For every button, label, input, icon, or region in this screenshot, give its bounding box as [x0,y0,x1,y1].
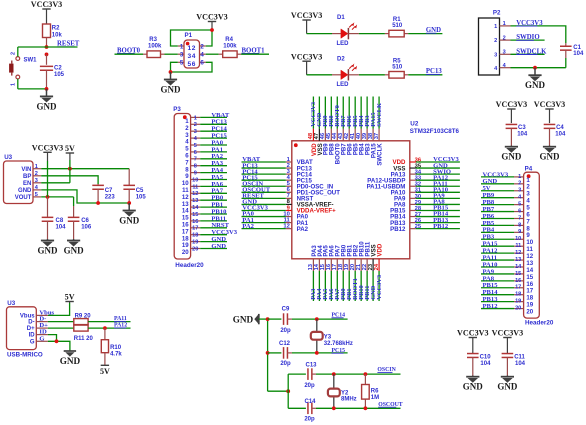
junction dot [45,53,49,57]
svg-text:6: 6 [194,150,197,156]
junction dot VCC3V3-VOUT [46,195,50,199]
wire U2 bottom PB10 [360,271,362,301]
wire SW1 top [17,47,19,57]
wire C13 branch [287,374,289,408]
svg-text:U2: U2 [410,120,419,127]
svg-text:3: 3 [503,50,506,56]
svg-text:10: 10 [515,236,521,242]
svg-text:5V: 5V [65,144,75,153]
pin USB ID [36,334,48,336]
junction dot GND boot [169,70,173,74]
svg-text:20p: 20p [304,383,315,389]
pin P4-9 net PB4 [514,231,524,233]
wire OSCOUT [316,407,401,409]
svg-text:GND: GND [161,85,182,95]
pin U2-40 PB4 [360,129,362,141]
svg-text:18: 18 [192,233,198,239]
junction dot P2 gnd [533,66,537,70]
pin P4-6 net PB7 [514,211,524,213]
microcontroller U2 STM32F103C8T6 [292,141,410,259]
svg-text:P1: P1 [185,32,193,39]
pin U2-11 PA1 [286,222,292,224]
wire U2 bottom PB0 [342,271,344,301]
svg-text:SWCLK: SWCLK [376,143,383,166]
svg-text:VCC3V3: VCC3V3 [31,0,62,9]
wire gnd to rail [259,318,268,320]
svg-text:6: 6 [518,208,521,214]
svg-text:PB12: PB12 [433,223,449,230]
svg-text:PB12: PB12 [483,303,499,310]
node RESET junction [45,45,49,49]
wire D- to R9 [48,321,74,323]
wire VCC loop top [171,30,213,46]
wire U2 left PC15 [242,179,286,181]
wire C1 down [565,58,567,68]
wire VIN row [41,168,129,170]
pin USB D- [36,321,48,323]
pin P1-2 [200,45,206,47]
ground GND (boot) [170,72,172,80]
svg-text:P2: P2 [493,10,501,17]
svg-text:5: 5 [35,192,38,198]
wire D2 to R5 [359,74,385,76]
wire U2 bottom PA5 [324,271,326,301]
pin P4-1 net VCC3V3 [514,176,524,178]
svg-text:104: 104 [480,361,491,367]
svg-text:USB-MRICO: USB-MRICO [7,352,43,359]
junction dot 5V-VIN [68,167,72,171]
pin U2-34 PA13 [410,173,416,175]
svg-text:1: 1 [10,83,16,86]
svg-text:16: 16 [515,278,521,284]
svg-text:1M: 1M [371,395,379,401]
ground GND (C8) [47,239,49,241]
svg-text:1: 1 [494,24,497,30]
ground GND (C5) [128,203,130,211]
svg-text:GND: GND [119,216,140,226]
wire U2 top PB8 [330,97,332,129]
wire SWDIO [511,39,545,41]
wire U2 right PB12 [416,228,460,230]
LED D1 [332,15,359,47]
svg-text:1: 1 [518,174,521,180]
wire Vbus to 5V [48,303,70,315]
junction dot ID-G [55,339,59,343]
pin U2-9 VDDA-VREF+ [286,209,292,211]
svg-text:14: 14 [515,264,522,270]
svg-text:C5: C5 [136,188,144,194]
svg-text:C14: C14 [304,399,316,405]
svg-text:C3: C3 [518,125,526,131]
pin P3-5 net PA0 [191,144,201,146]
pin P4-12 net PA12 [514,252,524,254]
svg-text:19: 19 [192,240,198,246]
capacitor C9 [283,313,285,325]
pin U2-5 PD0-OSC_IN [286,185,292,187]
svg-text:D1: D1 [337,15,345,21]
pin P4-8 net PB5 [514,224,524,226]
svg-text:1: 1 [180,43,184,50]
header P1 [184,40,200,68]
pin U2-22 PB11 [366,259,368,271]
wire BOOT0 [115,53,144,55]
svg-text:8: 8 [518,222,521,228]
pin U2-45 PB8 [330,129,332,141]
pin U2-18 PB0 [342,259,344,271]
svg-text:GND: GND [525,80,546,90]
wire G row [48,341,70,351]
pin P2-4 [500,67,511,69]
wire bottom to GND [18,88,47,90]
pin P3-16 net PB11 [191,220,201,222]
svg-text:C6: C6 [81,218,89,224]
pin P1-3 [178,53,184,55]
wire U2 right GND [416,167,460,169]
pin U2-43 PB7 [342,129,344,141]
pin U2-7 NRST [286,197,292,199]
junction dot bottom [45,87,49,91]
pin P4-11 net PA15 [514,245,524,247]
pin P4-14 net PA10 [514,266,524,268]
pin P3-11 net PA6 [191,185,201,187]
svg-text:2: 2 [503,35,506,41]
svg-text:PB12: PB12 [390,226,406,233]
pin P2-3 [500,53,511,55]
svg-text:GND: GND [540,152,561,162]
svg-text:7: 7 [518,215,521,221]
pin U2-35 VSS [410,167,416,169]
junction dot D+ [103,326,107,330]
junction dot R6 bottom [364,406,368,410]
svg-text:GND: GND [211,243,226,250]
svg-text:104: 104 [573,51,584,57]
pin U3-3 EN [33,182,41,184]
svg-text:Y3: Y3 [324,334,332,340]
svg-text:14: 14 [192,205,199,211]
pin USB Vbus [36,314,48,316]
svg-text:VCC3V3: VCC3V3 [196,13,227,22]
pin U2-17 PA7 [336,259,338,271]
svg-text:R9 20: R9 20 [75,313,92,319]
wire U2 left OSCOUT [242,191,286,193]
svg-text:15: 15 [515,271,521,277]
svg-text:VCC3V3: VCC3V3 [291,11,322,20]
pin P3-15 net PB10 [191,213,201,215]
pin U2-38 PA15 [372,129,374,141]
pin C2 bottom [46,70,48,89]
svg-text:GND: GND [38,246,59,256]
svg-text:106: 106 [81,224,92,230]
svg-text:32.768kHz: 32.768kHz [324,341,353,347]
svg-text:16: 16 [192,219,198,225]
connector P2 [479,18,500,75]
resistor R3 [143,53,147,55]
wire U2 left OSCIN [242,185,286,187]
svg-text:GND: GND [60,356,81,366]
svg-text:510: 510 [392,23,403,29]
svg-text:VDD: VDD [376,243,383,256]
wire SWDCLK [511,53,545,55]
svg-text:D-: D- [28,320,34,326]
pin U2-24 VDD [378,259,380,271]
switch SW1 [9,52,37,86]
pin U3-4 GND [33,189,41,191]
svg-text:C2: C2 [54,65,62,71]
power port VCC3V3 (reset pull-up) [46,9,48,24]
wire U2 bottom PB11 [366,271,368,301]
wire U2 left PA0 [242,216,286,218]
wire U2 left PC14 [242,173,286,175]
wire D+ to R11 [48,327,74,329]
capacitor C6 [73,197,75,206]
svg-text:3: 3 [180,52,184,59]
svg-text:12: 12 [188,45,197,52]
wire GND row [41,190,129,203]
header P4 [524,172,540,318]
svg-text:20: 20 [515,305,521,311]
pin P3-7 net PA2 [191,158,201,160]
svg-text:Header20: Header20 [175,262,204,269]
svg-text:R10: R10 [110,345,122,351]
wire U2 right PB15 [416,209,460,211]
pin U2-8 VSSA-VREF- [286,203,292,205]
svg-text:2: 2 [35,171,38,177]
svg-text:6: 6 [200,60,204,67]
wire U2 right PA9 [416,197,460,199]
wire D1 to R1 [359,33,385,35]
wire U2 bottom BOOT1 [354,271,356,301]
pin U2-42 PB6 [348,129,350,141]
junction dot rail PC14 [266,317,270,321]
junction dot Y3 bottom [315,351,319,355]
svg-text:GND: GND [497,382,518,392]
resistor R6 [364,374,366,384]
svg-text:12: 12 [515,250,521,256]
wire ID down [48,335,57,342]
wire C12 left [268,352,282,354]
svg-text:G: G [39,335,44,342]
regulator U3 [4,161,34,204]
pin U2-23 VSS [372,259,374,271]
svg-text:GND: GND [37,101,58,111]
svg-text:ID: ID [29,333,36,339]
svg-text:7: 7 [194,157,197,163]
capacitor C4 [544,123,556,125]
svg-text:24: 24 [374,263,380,270]
svg-text:5: 5 [518,202,521,208]
wire U2 left RESET [242,197,286,199]
svg-text:17: 17 [192,226,198,232]
power port VCC3V3 (C10) [472,338,474,354]
capacitor C11 [502,353,514,355]
pin U2-12 PA2 [286,228,292,230]
wire U2 top SWCLK [378,97,380,129]
wire C9 left [268,318,282,320]
pin P4-7 net PB6 [514,217,524,219]
pin U2-4 PC15 [286,179,292,181]
left rail vertical [267,319,269,391]
svg-text:SW1: SW1 [24,58,38,64]
svg-text:LED: LED [337,82,350,88]
ground GND (C10) [472,376,474,377]
wire U2 left GND [242,203,286,205]
svg-text:GND: GND [18,188,32,194]
LED D2 [332,56,359,88]
svg-text:GND: GND [463,382,484,392]
svg-text:VIN: VIN [21,167,31,173]
pin P3-14 net PB1 [191,206,201,208]
wire U2 top PA15 [372,97,374,129]
wire U2 right VCC3V3 [416,161,460,163]
svg-text:U3: U3 [7,300,15,307]
resistor R4 [206,53,219,55]
svg-text:VCC3V3: VCC3V3 [496,100,527,109]
svg-text:R4: R4 [225,37,233,43]
wire 5V stem to VIN [69,160,71,169]
pin U2-48 VDD [312,129,314,141]
svg-text:11: 11 [192,184,198,190]
pin U2-46 PB9 [324,129,326,141]
svg-text:37: 37 [374,133,380,139]
power port VCC3V3 (LED D2) [306,61,308,75]
pin U2-15 PA5 [324,259,326,271]
power port VCC3V3 (3.3V rail) [47,152,49,161]
wire to D2 [307,74,332,76]
pin U2-14 PA4 [318,259,320,271]
wire U2 top BOOT0 [336,97,338,129]
svg-text:LED: LED [337,41,350,47]
wire U2 top PB7 [342,97,344,129]
svg-text:2: 2 [194,122,197,128]
svg-text:2: 2 [518,181,521,187]
junction dot C7 gnd [96,201,100,205]
svg-text:5: 5 [180,60,184,67]
svg-text:17: 17 [515,285,521,291]
svg-text:510: 510 [392,64,403,70]
svg-text:100k: 100k [148,43,162,49]
ground GND (USB) [64,350,76,352]
wire U2 top PB5 [354,97,356,129]
ground GND (C11) [506,376,508,377]
pin P3-13 net PB0 [191,199,201,201]
pin P4-5 net PB8 [514,204,524,206]
svg-text:4.7k: 4.7k [110,351,122,357]
pin P3-3 net PC14 [191,130,201,132]
pin U2-3 PC14 [286,173,292,175]
wire VCC3V3 stem [47,161,49,197]
wire U2 bottom GND [372,271,374,301]
ground GND (C4) [549,146,551,147]
svg-text:5V: 5V [100,367,110,376]
ground GND (C3) [510,146,512,147]
svg-text:C7: C7 [105,188,113,194]
pin U2-6 PD1-OSC_OUT [286,191,292,193]
pin U2-27 PB14 [410,216,416,218]
wire U2 top PB3 [366,97,368,129]
wire U2 right PA10 [416,191,460,193]
wire U2 right PA8 [416,203,460,205]
svg-text:104: 104 [555,132,566,138]
capacitor C3 [506,123,518,125]
wire lower rail [268,390,289,392]
wire U2 left PA2 [242,228,286,230]
pin U3-1 VIN [33,168,41,170]
svg-text:R3: R3 [149,37,157,43]
svg-text:104: 104 [517,132,528,138]
capacitor C7 [97,184,99,186]
svg-text:VCC3V3: VCC3V3 [32,144,63,153]
svg-text:U3: U3 [4,154,12,161]
pin U2-28 PB15 [410,209,416,211]
pin U2-29 PA8 [410,203,416,205]
svg-text:19: 19 [515,299,521,305]
pin P3-6 net PA1 [191,151,201,153]
svg-text:GND: GND [501,152,522,162]
pin P3-2 net PC13 [191,123,201,125]
wire C9 to PC14 [292,318,348,320]
ground GND (reset) [46,89,48,97]
svg-text:VCC3V3: VCC3V3 [457,329,488,338]
pin P4-18 net PB14 [514,294,524,296]
svg-text:105: 105 [136,194,147,200]
power port 5V [69,153,71,160]
svg-text:105: 105 [54,72,65,78]
wire U2 bottom PA6 [330,271,332,301]
wire R1 out [408,33,442,35]
svg-text:2: 2 [200,43,204,50]
svg-text:C12: C12 [279,341,291,347]
svg-text:EN: EN [23,181,31,187]
pin P3-10 net PA5 [191,179,201,181]
wire VOUT row [41,196,73,198]
resistor R10 [104,328,106,340]
svg-text:2: 2 [10,52,16,55]
svg-text:STM32F103C8T6: STM32F103C8T6 [410,128,460,135]
pin C2 top [46,54,48,64]
svg-text:18: 18 [515,292,521,298]
pin P4-20 net PB12 [514,308,524,310]
svg-text:G: G [30,339,35,345]
pin USB D+ [36,327,48,329]
wire R9 to PA11 [88,321,130,323]
power port VCC3V3 (LED D1) [306,20,308,34]
pin U2-32 PA11-USBDM [410,185,416,187]
svg-text:104: 104 [56,224,67,230]
pin P2-1 [500,25,511,27]
pin U2-20 PB2 [354,259,356,271]
svg-text:C8: C8 [56,218,64,224]
power port 5V (USB) [69,302,71,304]
capacitor C8 [47,197,49,218]
wire EN row [41,182,70,184]
svg-text:13: 13 [192,198,198,204]
wire U2 bottom PA3 [312,271,314,301]
junction dot Y3 top [315,317,319,321]
svg-text:R2: R2 [52,26,60,32]
wire U2 left VBAT [242,161,286,163]
wire R3 to P1 pin3 [165,53,178,55]
pin P3-20 net GND [191,248,201,250]
pin P4-2 net GND [514,183,524,185]
wire BP row [41,176,98,184]
pin U2-25 PB12 [410,228,416,230]
svg-text:C13: C13 [305,362,317,368]
wire U2 left VCC3V3 [242,209,286,211]
pin U2-31 PA10 [410,191,416,193]
crystal Y3 [316,319,318,353]
svg-text:VCC3V3: VCC3V3 [534,100,565,109]
wire C12 to PC15 [292,352,348,354]
